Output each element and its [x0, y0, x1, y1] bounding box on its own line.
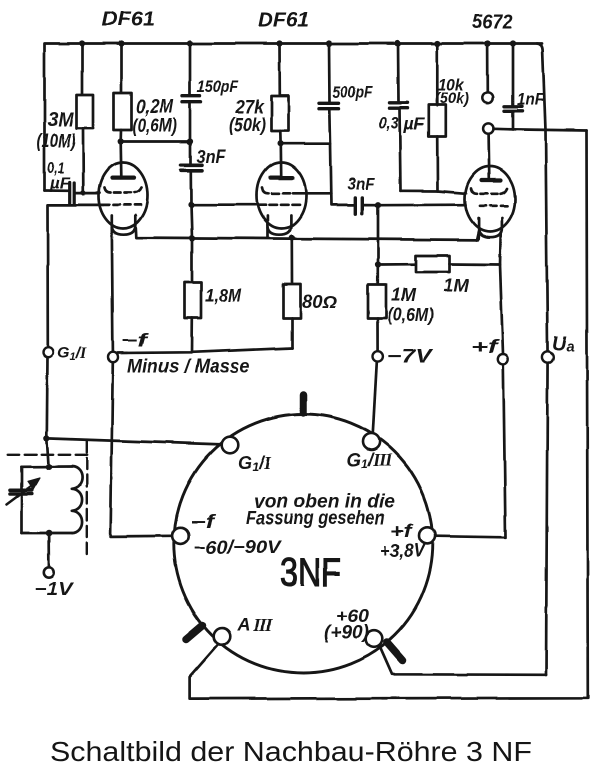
resistor 1M horizontal [378, 256, 500, 273]
wire anode tube1 to 0,2M junction [119, 142, 122, 177]
terminal -f circle [108, 352, 118, 362]
wire +f terminal down and left to socket +f pin [436, 365, 506, 538]
wire tube3 right filament lead down through 1M junction to +f terminal [500, 233, 503, 354]
svg-text:−1V: −1V [34, 579, 75, 599]
wire top supply rail [45, 44, 543, 191]
tube V3 anode bar [482, 178, 501, 182]
wire vertical x378 from 3nF line down to 1M junction [377, 205, 380, 264]
wire rail to jack upper circle [486, 44, 489, 93]
wire to socket pin G1/I [47, 438, 222, 444]
tube V3 5672 envelope [465, 167, 515, 232]
svg-text:3nF: 3nF [348, 175, 376, 194]
tube V3 grid 1 dashes [471, 189, 507, 194]
svg-text:+3,8V: +3,8V [380, 541, 427, 561]
svg-text:AIII: AIII [236, 615, 273, 635]
terminal -1V circle [44, 567, 54, 577]
resistor 3M [77, 44, 94, 193]
capacitor 3nF (second, coupling to tube3) [355, 198, 378, 214]
node dots on supply rail [79, 40, 516, 46]
svg-text:−60/−90V: −60/−90V [194, 538, 283, 558]
capacitor 1nF [505, 44, 523, 130]
wire junction row y141 [121, 140, 190, 143]
svg-text:1,8M: 1,8M [205, 286, 242, 306]
svg-text:3nF: 3nF [197, 147, 227, 167]
resistor 1M (0,6M) [368, 265, 386, 352]
svg-text:500pF: 500pF [333, 83, 373, 102]
terminal +f circle [498, 354, 508, 364]
wire G1/I terminal down to junction with socket wire [45, 357, 48, 439]
socket pin -f [172, 527, 189, 544]
socket key mark top [300, 395, 308, 413]
svg-text:+f: +f [471, 337, 500, 357]
wire G1/I terminal line up into tube1 lower grid [48, 205, 104, 347]
wire LC bottom to -1V terminal [47, 533, 50, 567]
svg-text:+f: +f [391, 521, 415, 541]
resistor 80ohm [283, 238, 301, 348]
wire 3nF2 to tube3 grid [378, 203, 466, 206]
wire 0,3uF+10k bottom line into tube3 upper grid [401, 191, 467, 194]
wire tube V3 left filament lead to bus [477, 231, 479, 240]
wire filament bus tube1 to tube3 [136, 228, 479, 240]
svg-text:3M: 3M [48, 109, 75, 131]
wire Ua vertical line from rail corner down [537, 44, 548, 676]
node dots LC tank [45, 464, 52, 536]
svg-text:Ua: Ua [552, 333, 575, 355]
terminal -7V circle [373, 351, 383, 361]
svg-text:0,2M: 0,2M [136, 97, 174, 118]
inductor coil (3 bumps) [72, 467, 82, 534]
capacitor 0,1uF (grid input) [45, 182, 100, 204]
socket big circle [174, 414, 433, 673]
tube V3 filament loop [479, 218, 502, 237]
tube V1 grid 2 dashes [103, 204, 141, 207]
wire +60 pin route right and up to Ua line bottom [380, 647, 546, 675]
wire jack lower circle down to tube3 anode [487, 134, 490, 179]
LC tank: bottom wire [22, 532, 73, 535]
svg-text:µF: µF [49, 175, 71, 192]
socket pin G1/I [222, 437, 239, 454]
variable capacitor arrow [7, 479, 40, 505]
wire minus/masse line [118, 348, 293, 353]
svg-text:µF: µF [402, 115, 425, 134]
svg-text:(10M): (10M) [37, 131, 76, 152]
tube V1 DF61 envelope [99, 163, 148, 229]
svg-text:−7V: −7V [387, 347, 434, 368]
tube V2 anode bar [271, 176, 293, 180]
wire from jack circle right to far-right vertical [494, 129, 587, 131]
svg-text:5672: 5672 [472, 12, 513, 34]
capacitor 150pF [182, 44, 201, 142]
svg-text:DF61: DF61 [102, 9, 155, 31]
socket key mark bottom-left [186, 626, 203, 640]
node dots mid circuit [118, 138, 382, 267]
svg-text:(50k): (50k) [435, 91, 470, 108]
resistor 1,8M [185, 238, 202, 352]
tube V3 grid 2 dashes [480, 204, 507, 207]
svg-text:DF61: DF61 [258, 10, 310, 32]
svg-text:150pF: 150pF [197, 77, 239, 96]
svg-text:3NF: 3NF [280, 551, 341, 595]
svg-text:Schaltbild der Nachbau-Röhre 3: Schaltbild der Nachbau-Röhre 3 NF [50, 736, 532, 767]
svg-text:G1/I: G1/I [238, 453, 272, 474]
wire tube2 anode junction row [281, 142, 331, 145]
wire LC tank vertical feed [47, 438, 49, 467]
jack upper circle [483, 92, 493, 102]
terminal G1/I circle [43, 347, 53, 357]
wire tube V2 left filament lead to bus [266, 228, 269, 238]
tube V2 grid 1 dashes [263, 188, 307, 193]
svg-text:−f: −f [190, 512, 217, 532]
tube V2 grid 2 dashes [270, 203, 300, 206]
resistor 0,2M [114, 44, 132, 142]
socket key mark bottom-right [387, 643, 403, 661]
svg-text:G1/III: G1/III [347, 450, 393, 471]
svg-text:(50k): (50k) [229, 115, 266, 136]
dashed box around LC tank [8, 441, 88, 554]
svg-text:80Ω: 80Ω [302, 292, 337, 312]
capacitor 3nF (first) [181, 142, 202, 205]
resistor 27k [272, 44, 289, 144]
wire tube1 left filament lead down to -f terminal [112, 227, 113, 352]
terminal Ua circle [542, 351, 553, 362]
wire grid line to tube2 [191, 203, 266, 206]
wire far-right vertical down, bottom run, to socket pin AIII [190, 131, 588, 699]
capacitor 0,3uF [390, 44, 408, 191]
tube V2 DF61 envelope [257, 163, 306, 229]
tube V2 filament loop [267, 216, 291, 235]
capacitor 500pF [320, 44, 339, 194]
svg-text:(+90): (+90) [324, 622, 369, 642]
socket pin +f [419, 527, 436, 544]
jack lower circle [483, 123, 493, 133]
svg-text:1M: 1M [391, 285, 417, 305]
svg-text:1M: 1M [443, 276, 470, 296]
svg-text:(0,6M): (0,6M) [133, 116, 177, 137]
tube V1 filament loop [112, 216, 136, 235]
wire tube2 anode lead [279, 144, 282, 177]
svg-text:Minus / Masse: Minus / Masse [127, 357, 250, 378]
LC tank: left branch with variable capacitor [10, 467, 32, 533]
socket pin +60 [366, 631, 383, 648]
socket pin AIII [214, 628, 231, 645]
svg-text:0,3: 0,3 [379, 114, 399, 133]
wire 3nF1 vertical continues to bus and 1,8M [191, 205, 192, 238]
svg-text:(0,6M): (0,6M) [388, 305, 434, 325]
wire tube2 right side exit to 500pF line [307, 193, 355, 205]
tube V1 grid 1 dashes [104, 188, 142, 193]
tube V1 anode bar [112, 176, 134, 180]
LC tank: top wire [22, 466, 73, 469]
node dot at LC top branch [44, 435, 50, 441]
svg-text:Fassung gesehen: Fassung gesehen [246, 508, 385, 529]
wire -7V terminal down to socket pin G1/III [373, 362, 377, 433]
resistor 10k [429, 44, 446, 192]
wire -f terminal line down and to socket -f pin [111, 362, 173, 537]
socket pin G1/III [363, 433, 380, 450]
node junction 3M bottom on 0,1uF output line [81, 190, 86, 195]
svg-text:−f: −f [122, 331, 150, 351]
svg-text:1nF: 1nF [517, 90, 545, 109]
svg-text:G1/I: G1/I [57, 345, 87, 363]
